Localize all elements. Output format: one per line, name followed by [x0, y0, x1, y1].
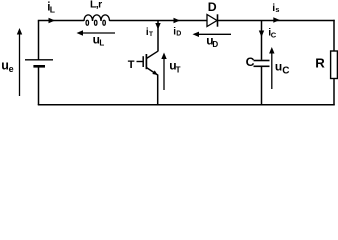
- wire: capacitor bottom plate to bottom rail: [261, 66, 263, 105]
- transistor T emitter lead with arrow: [146, 68, 157, 76]
- svg-text:T: T: [128, 59, 135, 71]
- wire: battery positive up to top-left corner: [38, 21, 40, 60]
- label u_e: [1, 58, 13, 74]
- transistor T collector lead: [146, 51, 157, 58]
- wire: resistor to bottom-right corner: [333, 79, 335, 106]
- label u_T: [169, 59, 180, 75]
- voltage arrow u_e: [17, 28, 22, 96]
- current arrow i_s: [273, 17, 280, 22]
- label i_D: [173, 27, 181, 38]
- voltage arrow u_L: [77, 30, 116, 35]
- voltage arrow u_C: [269, 47, 274, 89]
- wire: top rail inductor to transistor node: [110, 20, 159, 22]
- label T: [128, 59, 135, 71]
- current arrow i_C: [259, 31, 264, 38]
- transistor T body bar: [145, 54, 147, 69]
- label C: [246, 55, 255, 69]
- wire: top-right corner down to resistor: [333, 20, 335, 51]
- transistor T (IGBT) gate lead: [137, 61, 144, 63]
- wire: transistor branch from rail to collector: [157, 21, 159, 52]
- svg-text:D: D: [208, 0, 217, 14]
- wire: top rail capacitor node to top-right corner: [262, 20, 335, 22]
- svg-text:L: L: [99, 39, 104, 48]
- wire: capacitor branch from rail to top plate: [261, 21, 263, 60]
- diode D: [207, 14, 218, 26]
- wire: top rail transistor node to diode anode: [158, 20, 207, 22]
- svg-text:C: C: [246, 55, 255, 69]
- label u_L: [93, 33, 105, 48]
- inductor L,r: [84, 15, 110, 25]
- label i_C: [268, 26, 277, 39]
- svg-text:T: T: [176, 66, 181, 75]
- wire: battery negative down to bottom-left corner: [38, 66, 40, 105]
- wire: top rail diode cathode to capacitor node: [218, 20, 263, 22]
- label i_L: [47, 1, 55, 14]
- wire: transistor emitter to bottom rail: [157, 75, 159, 106]
- svg-text:C: C: [271, 31, 277, 40]
- label R: [315, 56, 325, 71]
- current arrow i_D: [174, 18, 181, 23]
- svg-text:e: e: [9, 64, 14, 74]
- wire: top rail from corner to inductor: [38, 20, 84, 22]
- resistor R: [331, 51, 338, 79]
- voltage arrow u_T: [161, 53, 166, 91]
- label D: [208, 0, 217, 14]
- transistor T gate bar: [142, 56, 144, 67]
- svg-text:D: D: [176, 31, 181, 38]
- svg-text:C: C: [282, 65, 289, 76]
- label L,r: [90, 0, 102, 11]
- svg-text:u: u: [275, 59, 282, 73]
- current arrow i_T: [155, 23, 160, 30]
- svg-text:T: T: [149, 31, 153, 38]
- voltage arrow u_D: [193, 32, 232, 37]
- label i_s: [272, 2, 279, 14]
- svg-text:s: s: [275, 5, 279, 14]
- label i_T: [146, 27, 153, 38]
- svg-text:R: R: [315, 56, 325, 71]
- label u_D: [206, 34, 218, 49]
- svg-text:D: D: [212, 40, 218, 49]
- wire: bottom rail: [38, 104, 335, 106]
- capacitor C plates: [254, 61, 270, 67]
- label u_C: [275, 59, 290, 76]
- current arrow i_L: [49, 18, 56, 23]
- voltage source battery long plate: [25, 59, 53, 61]
- svg-text:L,r: L,r: [90, 0, 102, 11]
- svg-text:L: L: [50, 5, 55, 15]
- voltage source battery short thick plate: [33, 65, 45, 68]
